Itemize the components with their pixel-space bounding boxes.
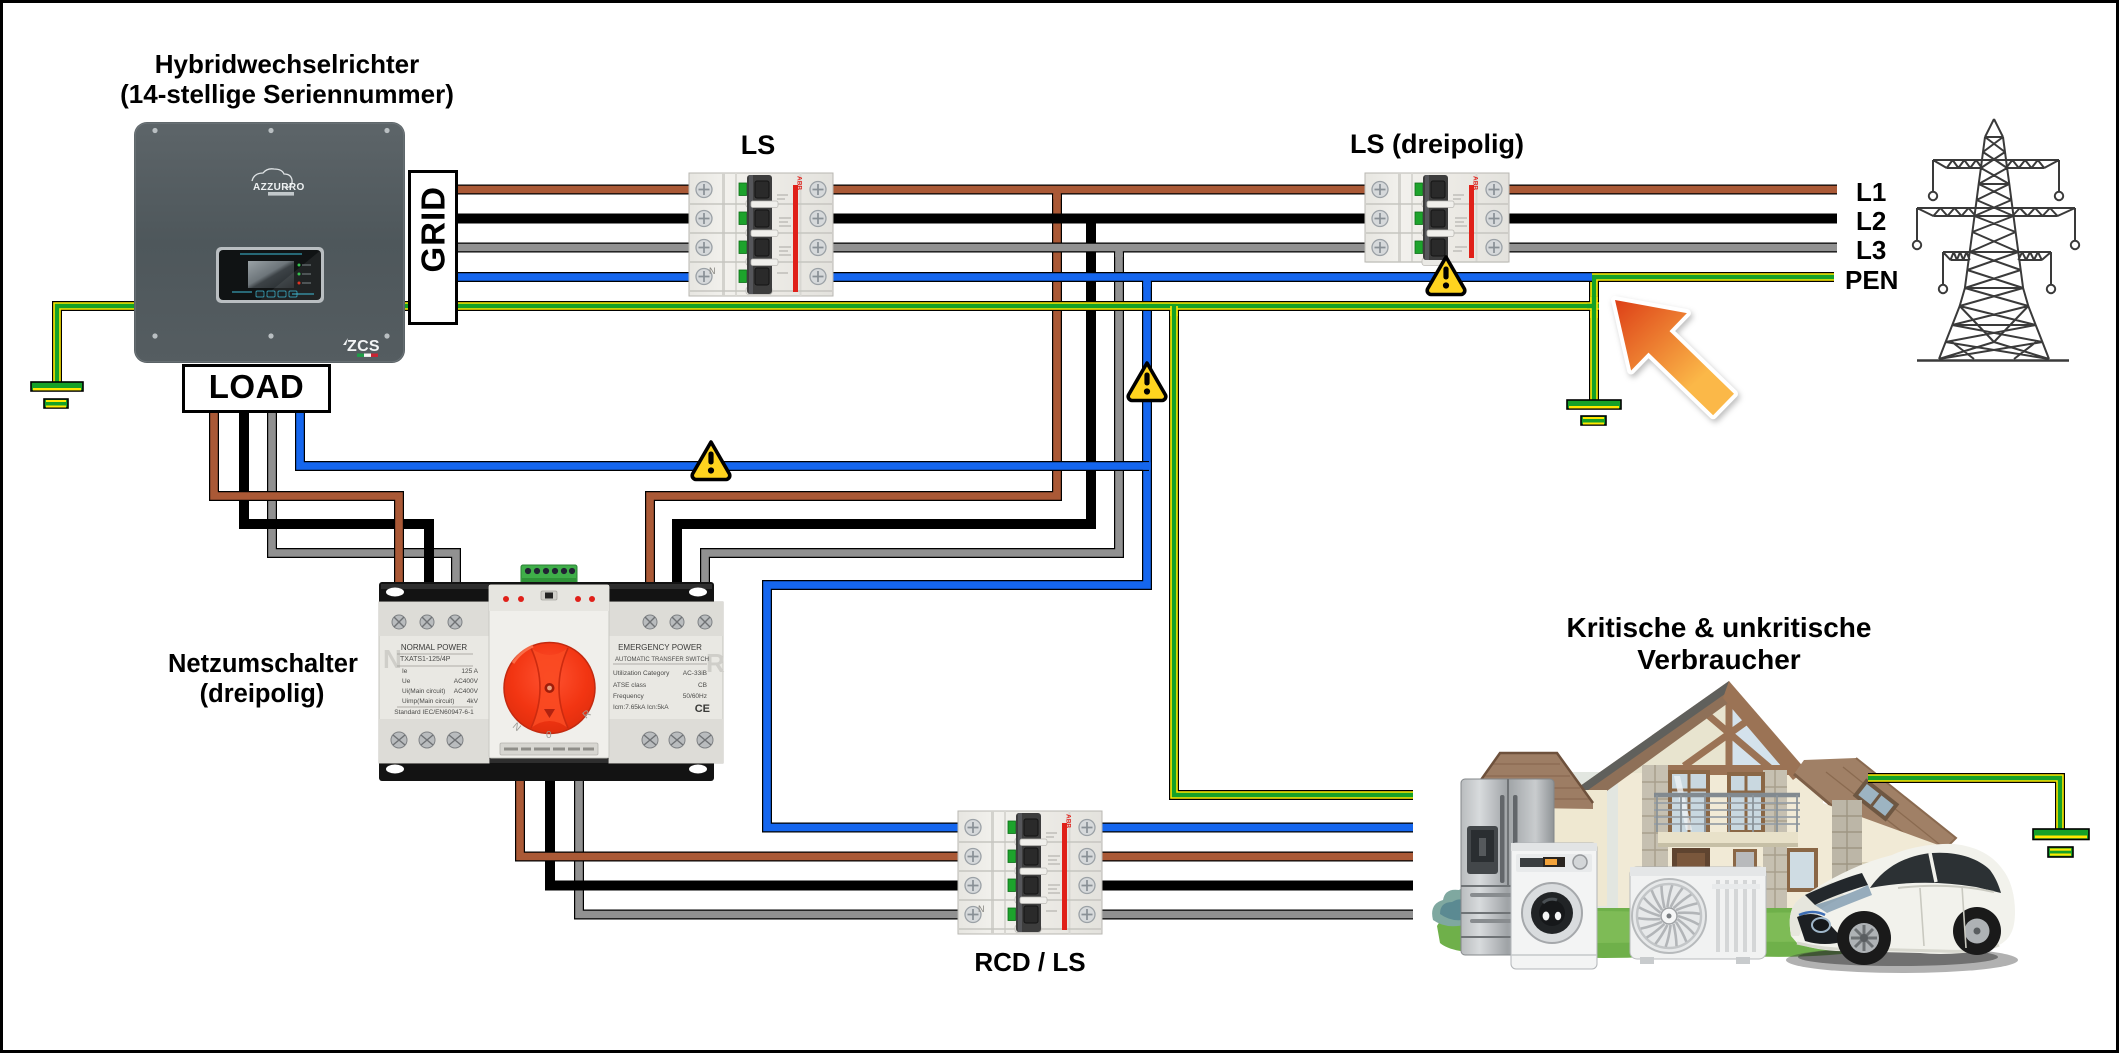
bottom mounting plate: [379, 757, 714, 781]
main right roof fascia: [1723, 681, 1806, 780]
junction patch brown bus drop: [1053, 190, 1061, 200]
label L2: [1856, 206, 1916, 237]
wire green PE drop to loads: [1174, 306, 1413, 795]
ground floor door & window: [1672, 848, 1710, 908]
balcony: [1658, 832, 1798, 843]
car (EV): [1786, 844, 2018, 973]
wire PEN (blue-to-green continuation to pylon + earth drop): [1594, 277, 1834, 400]
warning triangle on blue riser: [1128, 363, 1166, 401]
label RCD / LS: [930, 947, 1130, 978]
right big roof plane: [1794, 758, 1956, 860]
wire black LOAD to ATS: [244, 413, 429, 595]
wire black drop from bus to ATS right: [677, 219, 1091, 596]
ground mid-right (PEN): [1567, 400, 1621, 425]
fridge: [1461, 779, 1554, 955]
ATS Netzumschalter (transfer switch): [379, 565, 725, 781]
label GRID: [356, 223, 511, 273]
center module: [489, 585, 609, 758]
AC unit: [1630, 867, 1766, 964]
orange arrow: [1615, 300, 1734, 415]
junction patch gray bus drop: [1115, 248, 1123, 258]
wire gray drop from bus to ATS right: [705, 248, 1119, 596]
house: [1460, 681, 1956, 908]
wire N blue bus: [450, 272, 1592, 282]
label LS: [724, 130, 792, 161]
main walls under gable: [1563, 772, 1823, 908]
left wing: [1487, 790, 1607, 906]
label LS (dreipolig): [1337, 129, 1537, 160]
warning triangle on PEN below LS2: [1427, 257, 1465, 295]
wire gray LOAD to ATS: [272, 413, 456, 595]
junction patch PEN earth tee: [1590, 297, 1598, 318]
label PEN: [1845, 265, 1915, 296]
junction patch green bus drop: [1170, 306, 1178, 316]
inverter U1 (Hybridwechselrichter): [134, 122, 405, 363]
wire black ATS bottom to loads: [550, 775, 1413, 886]
main left roof edge: [1566, 681, 1735, 812]
skylight: [1853, 778, 1900, 821]
label Kritische & unkritische Verbraucher: [1558, 612, 1880, 676]
right wing wall: [1820, 802, 1952, 905]
right stone pillar: [1832, 800, 1862, 905]
green terminal block: [521, 565, 577, 585]
bush: [1432, 887, 1483, 926]
grass: [1437, 901, 1951, 958]
label L3: [1856, 235, 1916, 266]
wire L2 black bus: [450, 214, 1837, 224]
wire brown LOAD to ATS: [214, 413, 399, 595]
junction patch blue bus drop: [1143, 277, 1151, 287]
label Netzumschalter: [168, 649, 356, 709]
washing machine: [1511, 843, 1597, 969]
pylon (transmission tower): [1913, 119, 2079, 361]
stone columns on gable face: [1642, 765, 1668, 908]
wire house PE to ground: [1868, 778, 2060, 829]
wire L3 gray bus: [450, 243, 1837, 253]
display module: [216, 247, 324, 303]
ground house right: [2033, 829, 2089, 857]
label Hybridwechselrichter title: [107, 49, 467, 109]
breaker LS2 (3-pole): [1365, 173, 1509, 266]
azzurro logo: [252, 169, 292, 188]
wire gray ATS bottom to loads: [579, 775, 1413, 915]
label L1: [1856, 177, 1916, 208]
window right of gable: [1786, 848, 1818, 892]
wire blue LOAD horizontal: [300, 413, 1150, 466]
right module: [609, 602, 723, 763]
GRID box: [408, 170, 458, 325]
junction patch blue load tee: [1143, 462, 1151, 470]
label LOAD: [182, 364, 331, 413]
ground left: [31, 382, 83, 408]
rotary knob: [504, 643, 595, 734]
wire L1 brown bus: [450, 185, 1837, 195]
gable beams: [1642, 692, 1795, 770]
left module: [379, 602, 489, 763]
upper windows: [1668, 770, 1710, 836]
wire blue drop from bus through RCD: [767, 277, 1413, 828]
breaker RCD/LS (4-pole): [958, 811, 1102, 934]
gable face: [1623, 688, 1798, 773]
warning triangle on LOAD neutral: [692, 442, 730, 480]
wire brown drop from bus to ATS right: [650, 190, 1057, 596]
top mounting plate: [379, 582, 714, 609]
LOAD box: [182, 364, 331, 413]
breaker LS1 (4-pole): [689, 173, 833, 296]
wire brown ATS bottom to loads: [520, 775, 1413, 857]
wire PE main bus (inverter left to PEN junction): [57, 306, 1599, 382]
